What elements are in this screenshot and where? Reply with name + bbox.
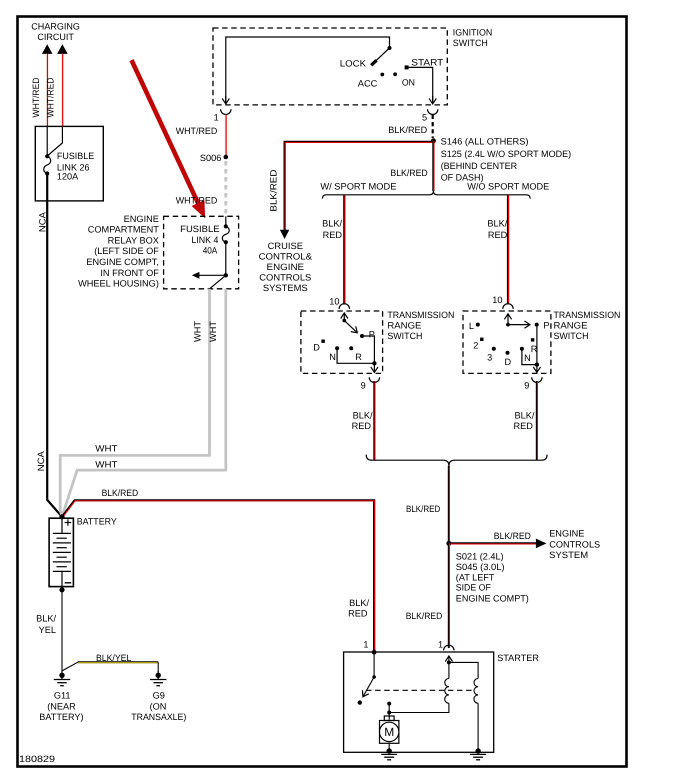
motor M (380, 716, 399, 743)
svg-text:CHARGING: CHARGING (31, 21, 80, 31)
svg-text:5: 5 (422, 113, 427, 123)
contact N left (335, 346, 339, 350)
wire WHT gray 1 (relay box to battery) (60, 289, 209, 517)
solenoid coil 1 (445, 678, 449, 703)
svg-text:WHT/RED: WHT/RED (176, 196, 218, 206)
svg-text:9: 9 (361, 380, 366, 390)
contact START (405, 65, 409, 69)
brace split (sport mode) (322, 191, 530, 199)
svg-text:BLK/RED: BLK/RED (494, 531, 531, 541)
svg-text:TRANSMISSION: TRANSMISSION (387, 310, 454, 320)
ignition switch box (213, 28, 447, 105)
wire WHT/RED right vertical (61, 54, 63, 127)
svg-text:RED: RED (348, 608, 368, 618)
wire BLK/RED to right TRS pin 10 (507, 195, 509, 304)
brace join above starter (366, 455, 547, 466)
svg-text:BLK/RED: BLK/RED (102, 488, 139, 498)
wire ignition internal to pin 5 (409, 67, 433, 104)
svg-text:P: P (543, 321, 549, 331)
wire BLK/RED brace to S021 (448, 466, 450, 544)
wire BLK/RED left TRS to brace (373, 381, 375, 460)
pin 10 connector right (503, 304, 513, 309)
svg-text:ENGINE: ENGINE (124, 214, 159, 224)
wire to switch (373, 652, 375, 677)
battery symbol (49, 518, 73, 586)
pin 5 connector (428, 109, 438, 114)
svg-text:(BEHIND CENTER: (BEHIND CENTER (441, 161, 518, 171)
svg-text:FUSIBLE: FUSIBLE (57, 151, 94, 161)
svg-text:BLK/RED: BLK/RED (388, 125, 427, 135)
ground G11 (54, 671, 70, 686)
svg-text:SWITCH: SWITCH (453, 38, 488, 48)
pin 10 connector (339, 304, 349, 309)
svg-text:RED: RED (323, 230, 343, 240)
svg-text:RANGE: RANGE (387, 320, 421, 330)
wire WHT/RED dashed gray S006 to relay box (224, 161, 227, 216)
svg-text:BLK/: BLK/ (353, 411, 373, 421)
svg-text:IGNITION: IGNITION (453, 28, 493, 38)
svg-text:CONTROL&: CONTROL& (259, 252, 312, 262)
svg-text:WHT/RED: WHT/RED (31, 77, 41, 117)
svg-text:SWITCH: SWITCH (387, 331, 422, 341)
pin 9 connector left (369, 377, 379, 382)
svg-text:FUSIBLE: FUSIBLE (180, 224, 219, 234)
pin 9 arrow down left (373, 363, 375, 372)
svg-text:M: M (384, 725, 394, 739)
fusible link 4 symbol (225, 216, 227, 226)
svg-text:START: START (411, 58, 443, 68)
arrow to charging circuit (left) (42, 44, 53, 54)
svg-text:CONTROLS: CONTROLS (259, 273, 311, 283)
svg-text:CIRCUIT: CIRCUIT (37, 32, 74, 42)
switch arm toward LOCK (374, 48, 390, 63)
svg-text:ENGINE COMPT,: ENGINE COMPT, (86, 257, 159, 267)
contact ON (393, 72, 397, 76)
junction left pin (372, 650, 377, 655)
svg-text:BLK/: BLK/ (322, 218, 342, 228)
contact ACC (380, 73, 384, 77)
wire N to junction right (522, 350, 537, 365)
wire fuse to junction (225, 242, 227, 275)
wire BLK/RED right TRS to brace (536, 381, 538, 460)
svg-text:W/ SPORT MODE: W/ SPORT MODE (320, 181, 396, 191)
svg-text:W/O SPORT MODE: W/O SPORT MODE (467, 181, 549, 191)
contact P right (535, 323, 539, 327)
pin 10 arrow up inside (343, 313, 345, 321)
svg-text:RED: RED (513, 421, 533, 431)
svg-text:1: 1 (363, 639, 368, 649)
svg-text:N: N (524, 353, 531, 363)
svg-text:LINK 4: LINK 4 (191, 235, 218, 245)
wire BLK/RED S146 to cruise (285, 142, 434, 231)
wire coil2 to ground (477, 703, 479, 752)
svg-text:COMPARTMENT: COMPARTMENT (88, 225, 160, 235)
svg-text:RELAY BOX: RELAY BOX (108, 235, 159, 245)
svg-text:WHT: WHT (95, 444, 118, 454)
ground right in starter (470, 748, 486, 760)
big red pointer arrow (132, 60, 206, 218)
contact D right (506, 351, 510, 355)
node S146 (431, 138, 436, 143)
svg-text:TRANSAXLE): TRANSAXLE) (131, 712, 186, 722)
wire P to pin 9 right (536, 325, 538, 365)
starter switch arm (363, 677, 374, 697)
node S006 (224, 155, 229, 160)
svg-text:S021 (2.4L): S021 (2.4L) (456, 551, 504, 561)
svg-text:R: R (355, 352, 362, 362)
svg-text:WHT: WHT (193, 321, 203, 342)
svg-text:10: 10 (329, 297, 339, 307)
svg-text:S045 (3.0L): S045 (3.0L) (456, 562, 505, 572)
svg-text:WHEEL HOUSING): WHEEL HOUSING) (78, 279, 159, 289)
svg-text:BATTERY: BATTERY (77, 517, 117, 527)
svg-text:2: 2 (473, 341, 478, 351)
svg-text:SYSTEM: SYSTEM (549, 550, 588, 560)
wire BLK/RED S021 to starter (448, 543, 450, 648)
svg-text:S125 (2.4L W/O SPORT MODE): S125 (2.4L W/O SPORT MODE) (441, 149, 572, 159)
svg-text:BLK/RED: BLK/RED (406, 504, 441, 514)
svg-text:BLK/: BLK/ (349, 598, 369, 608)
wire NCA black vertical to battery (47, 174, 62, 517)
svg-text:(LEFT SIDE OF: (LEFT SIDE OF (94, 246, 159, 256)
svg-text:1: 1 (214, 113, 219, 123)
wire BLK/RED to left TRS pin 10 (343, 195, 345, 304)
wire coil1 to motor terminal (389, 703, 449, 712)
junction in relay box (224, 273, 228, 277)
svg-text:BLK/: BLK/ (514, 411, 534, 421)
node CHARGING CIRCUIT label (31, 21, 80, 41)
svg-text:WHT/RED: WHT/RED (176, 126, 218, 136)
svg-text:WHT: WHT (208, 321, 218, 342)
relay box label (78, 214, 159, 289)
svg-text:3: 3 (487, 352, 492, 362)
ENGINE COMPARTMENT RELAY BOX (164, 216, 239, 288)
svg-text:BLK/RED: BLK/RED (390, 168, 428, 178)
svg-text:ENGINE: ENGINE (549, 529, 584, 539)
svg-text:RED: RED (352, 421, 372, 431)
contact N right (520, 347, 524, 351)
svg-text:BLK/YEL: BLK/YEL (96, 653, 131, 663)
svg-text:BATTERY): BATTERY) (39, 712, 83, 722)
TRS box right (463, 311, 551, 373)
svg-text:D: D (313, 343, 320, 353)
svg-text:ENGINE COMPT): ENGINE COMPT) (456, 593, 529, 603)
svg-text:10: 10 (492, 295, 502, 305)
arrow to charging circuit (right) (57, 44, 68, 54)
ground under motor (381, 748, 397, 760)
svg-text:STARTER: STARTER (497, 653, 539, 663)
svg-text:BLK/: BLK/ (487, 218, 507, 228)
ground G9 (150, 671, 166, 686)
svg-text:TRANSMISSION: TRANSMISSION (554, 310, 621, 320)
pin arrow up middle (448, 656, 450, 662)
pin 9 arrow down right (536, 365, 538, 373)
svg-text:9: 9 (524, 380, 529, 390)
wire BLK/RED battery to starter (62, 500, 374, 651)
fusible link 26 box (35, 126, 103, 200)
junction at battery - (59, 587, 64, 592)
wire BLK/YEL battery to G11 (61, 590, 63, 671)
solenoid coil 2 (474, 678, 478, 703)
arrow to cruise control (280, 230, 289, 239)
arrow branch left inside relay box (198, 274, 226, 276)
wire BLK/YEL branch to G9 (62, 662, 78, 671)
fusible link 26 symbol (45, 154, 49, 158)
wire BLK/RED to engine controls (449, 542, 537, 544)
wire ignition internal from pin 1 (226, 37, 390, 104)
svg-text:S146 (ALL OTHERS): S146 (ALL OTHERS) (441, 137, 529, 147)
switch arm left TRS (344, 321, 357, 333)
svg-text:RANGE: RANGE (554, 320, 588, 330)
switch arm right TRS (508, 324, 530, 326)
svg-text:(AT LEFT: (AT LEFT (456, 573, 495, 583)
svg-text:NCA: NCA (36, 450, 46, 471)
wire WHT/RED pin1 to S006 (224, 115, 226, 157)
svg-text:ON: ON (402, 77, 415, 87)
svg-text:LOCK: LOCK (340, 58, 367, 68)
label CRUISE CONTROL& ENGINE CONTROLS SYSTEMS (259, 241, 312, 293)
contact D left (321, 340, 324, 343)
contact R right (531, 338, 534, 341)
wire WHT gray 2 (relay box to battery) (62, 289, 226, 517)
wire to motor (388, 713, 390, 720)
svg-text:L: L (469, 321, 474, 331)
svg-text:YEL: YEL (39, 625, 56, 635)
contact L right (476, 323, 480, 327)
svg-text:SIDE OF: SIDE OF (456, 583, 491, 593)
svg-text:NCA: NCA (38, 211, 48, 232)
wire P to pin 9 left (362, 336, 374, 363)
svg-text:S006: S006 (200, 153, 222, 163)
svg-text:1: 1 (438, 639, 443, 649)
svg-text:WHT/RED: WHT/RED (45, 77, 55, 117)
svg-text:SYSTEMS: SYSTEMS (263, 283, 308, 293)
wire WHT/RED left vertical (46, 54, 48, 127)
svg-text:40A: 40A (203, 246, 218, 256)
pin 10 arrow up inside right (507, 314, 509, 325)
contact P left (360, 334, 364, 338)
svg-text:BLK/RED: BLK/RED (406, 611, 443, 621)
mechanical link dashed (366, 689, 474, 691)
svg-text:(ON: (ON (150, 701, 167, 711)
svg-text:G9: G9 (153, 690, 165, 700)
svg-text:CRUISE: CRUISE (268, 241, 303, 251)
svg-text:D: D (505, 357, 512, 367)
svg-text:N: N (329, 352, 336, 362)
svg-text:ACC: ACC (358, 78, 378, 88)
svg-text:WHT: WHT (95, 459, 118, 469)
starter pin connector (444, 645, 454, 650)
svg-text:CONTROLS: CONTROLS (549, 539, 600, 549)
svg-text:ENGINE: ENGINE (267, 262, 305, 272)
wire motor to ground (388, 743, 390, 752)
svg-text:SWITCH: SWITCH (554, 331, 589, 341)
wire inside box left (46, 126, 48, 156)
wire inside box right diagonal (47, 126, 62, 156)
svg-text:G11: G11 (54, 690, 71, 700)
svg-text:IN FRONT OF: IN FRONT OF (100, 268, 159, 278)
contact R left (349, 346, 353, 350)
pin 1 connector (221, 109, 231, 114)
svg-text:180829: 180829 (19, 754, 55, 764)
switch pivot dot (388, 46, 392, 50)
wire BLK/RED pin5 dashed black (432, 115, 434, 138)
wire N to junction left (337, 348, 374, 363)
svg-text:120A: 120A (57, 172, 79, 182)
contact 2 right (480, 338, 483, 341)
svg-text:RED: RED (488, 230, 508, 240)
svg-text:(NEAR: (NEAR (47, 701, 76, 711)
TRS box left (301, 311, 383, 373)
wire junction to coils (449, 662, 478, 678)
junction at battery + (59, 514, 64, 519)
node S021 (446, 541, 451, 546)
pin 9 connector right (532, 377, 542, 382)
contact 3 right (492, 347, 496, 351)
wire BLK/RED S146 down to brace (432, 141, 434, 191)
svg-text:BLK/: BLK/ (36, 614, 56, 624)
wire diagonal to WHT (210, 275, 226, 289)
starter box (344, 652, 494, 752)
svg-text:BLK/RED: BLK/RED (268, 169, 278, 211)
